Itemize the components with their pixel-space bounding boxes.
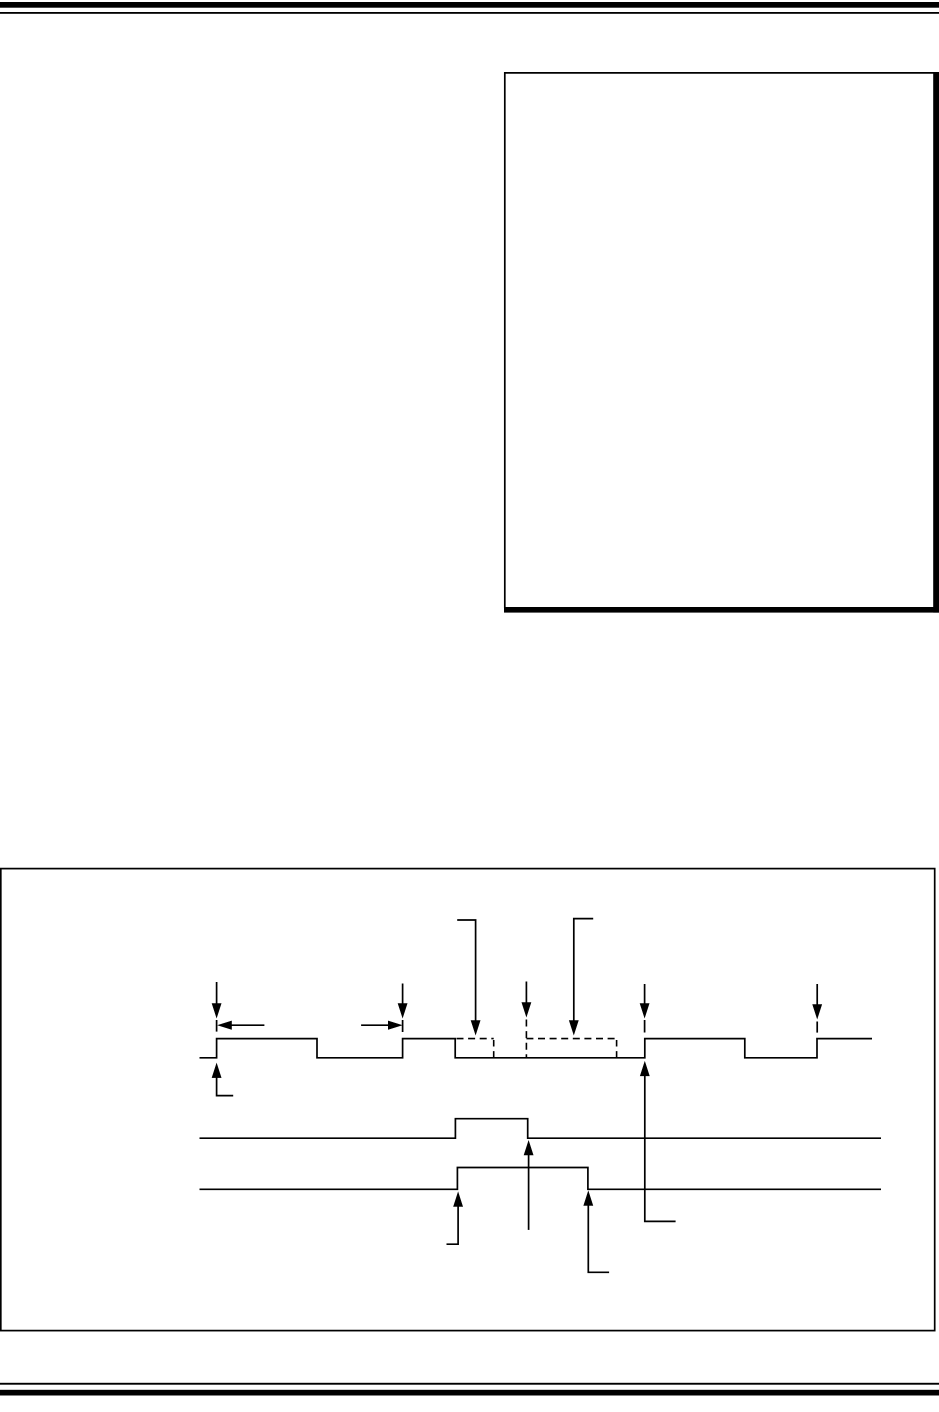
header thin rule [0,12,939,14]
down arrow 1 [212,982,221,1032]
dotted edge tick right of segment 2 [616,1040,618,1058]
dotted high segment 1 [457,1038,494,1040]
up arrow A2 with foot [447,1192,463,1244]
callout arrow E1 (elbow left) [457,920,480,1035]
up arrow A1 with foot [212,1064,233,1096]
down arrow 2 [398,984,407,1033]
down arrow 3 [522,982,531,1017]
pulse waveform 3 (bottom) [200,1168,882,1190]
down arrow 5 [813,984,822,1033]
pulse waveform 2 (middle) [200,1119,882,1139]
up arrow A4 with foot [584,1191,609,1272]
figure frame box [1,869,935,1331]
measure arrow pointing left [218,1021,264,1029]
note box (shadowed, top-right) [504,72,939,612]
up arrow A3 [524,1141,533,1230]
measure arrow pointing right [361,1021,401,1029]
down arrow 4 [640,984,649,1033]
header thick rule [0,2,939,8]
callout arrow E2 (elbow right) [569,919,593,1035]
dotted high segment 2 [526,1038,616,1040]
dotted edge tick left of segment 2 [525,1020,527,1058]
dotted falling tick 1 [493,1040,495,1058]
footer thin rule [0,1383,939,1385]
footer thick rule [0,1390,939,1396]
long up arrow A5 with foot [640,1062,675,1222]
clock waveform solid trace [200,1039,873,1058]
